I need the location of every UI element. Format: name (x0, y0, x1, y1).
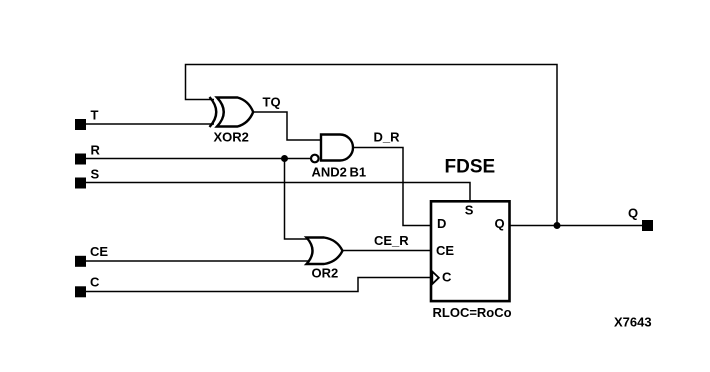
svg-text:AND2 B1: AND2 B1 (312, 165, 367, 180)
svg-text:S: S (465, 203, 474, 218)
wire XOR2 output TQ to AND2B1 upper input (253, 112, 321, 140)
input terminal S (75, 178, 86, 189)
input terminal CE (75, 256, 86, 267)
svg-text:TQ: TQ (263, 95, 281, 110)
flip-flop FDSE body (431, 201, 510, 301)
junction dot on Q net (554, 222, 561, 229)
svg-text:D: D (437, 216, 446, 231)
input terminal R (75, 154, 86, 165)
svg-text:S: S (91, 167, 100, 182)
xor-gate XOR2 input arc (210, 97, 217, 127)
junction dot on R net (281, 155, 288, 162)
svg-text:R: R (91, 143, 101, 158)
wire AND2B1 output D_R to FDSE D pin (353, 148, 431, 226)
xor-gate XOR2 body (217, 98, 253, 127)
wire R to AND2B1 bubble input (86, 158, 312, 160)
svg-text:RLOC=RoCo: RLOC=RoCo (433, 305, 512, 320)
svg-text:X7643: X7643 (614, 315, 652, 330)
wire feedback top from Q junction to XOR2 upper input (186, 65, 558, 226)
svg-text:OR2: OR2 (312, 266, 339, 281)
svg-text:C: C (442, 270, 452, 285)
and-gate AND2B1 body (321, 135, 353, 161)
svg-text:Q: Q (628, 206, 638, 221)
svg-text:CE: CE (90, 244, 108, 259)
svg-text:D_R: D_R (374, 130, 401, 145)
clock triangle on FDSE C pin (432, 272, 439, 285)
input terminal C (75, 286, 86, 297)
wire R junction down to OR2 upper input (285, 159, 311, 240)
svg-text:CE: CE (436, 243, 454, 258)
inverter bubble on AND2B1 lower input (311, 155, 319, 163)
svg-text:C: C (90, 275, 100, 290)
wire CE to OR2 lower input (86, 260, 310, 262)
svg-text:XOR2: XOR2 (214, 130, 249, 145)
or-gate OR2 body (307, 238, 343, 265)
wire S to FDSE S pin (86, 183, 470, 202)
svg-text:Q: Q (495, 216, 505, 231)
svg-text:CE_R: CE_R (374, 233, 409, 248)
wire T to XOR2 lower input (86, 123, 214, 125)
wire OR2 output CE_R to FDSE CE pin (343, 250, 432, 252)
wire FDSE Q output to terminal Q (510, 225, 643, 227)
wire C to FDSE clock pin (86, 278, 431, 292)
svg-text:FDSE: FDSE (445, 157, 496, 178)
svg-text:T: T (91, 108, 99, 123)
output terminal Q (642, 220, 653, 231)
input terminal T (75, 119, 86, 130)
